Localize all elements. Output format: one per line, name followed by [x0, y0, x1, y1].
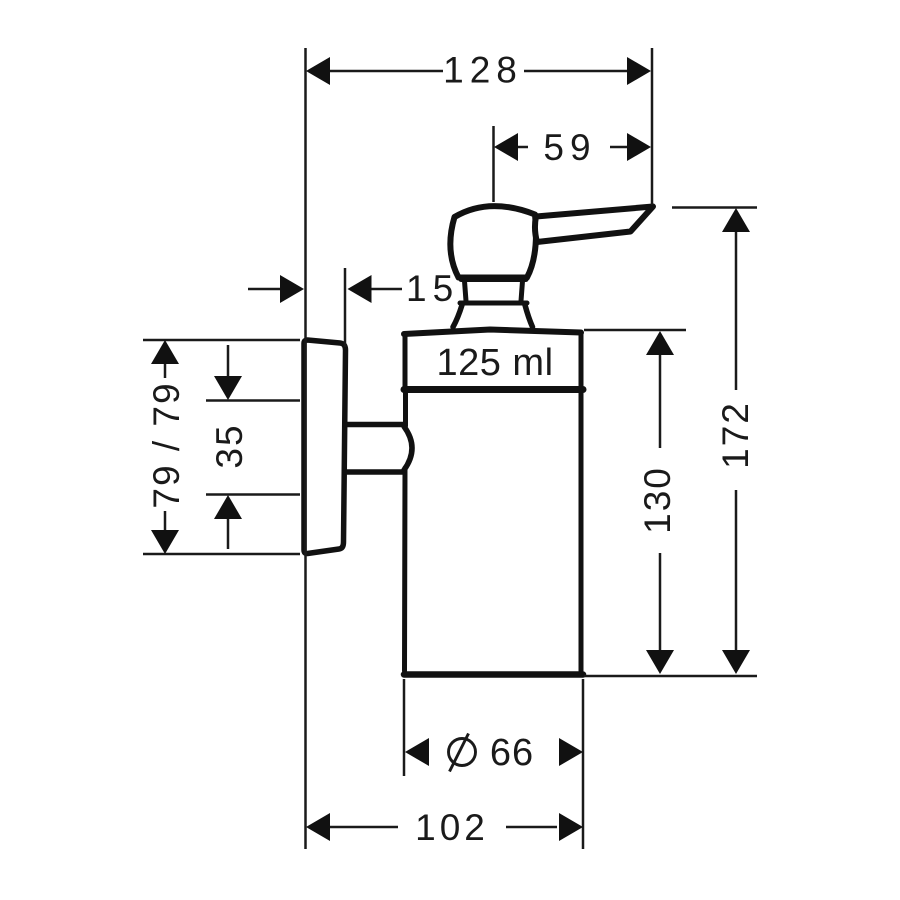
- svg-text:35: 35: [209, 423, 250, 468]
- svg-text:128: 128: [443, 50, 523, 91]
- svg-text:79 / 79: 79 / 79: [146, 381, 187, 508]
- svg-text:125 ml: 125 ml: [436, 342, 553, 384]
- svg-text:172: 172: [715, 401, 756, 469]
- svg-text:59: 59: [543, 127, 596, 168]
- svg-text:66: 66: [490, 732, 534, 774]
- svg-text:15: 15: [406, 268, 459, 309]
- svg-text:130: 130: [637, 466, 678, 534]
- svg-text:102: 102: [415, 807, 489, 848]
